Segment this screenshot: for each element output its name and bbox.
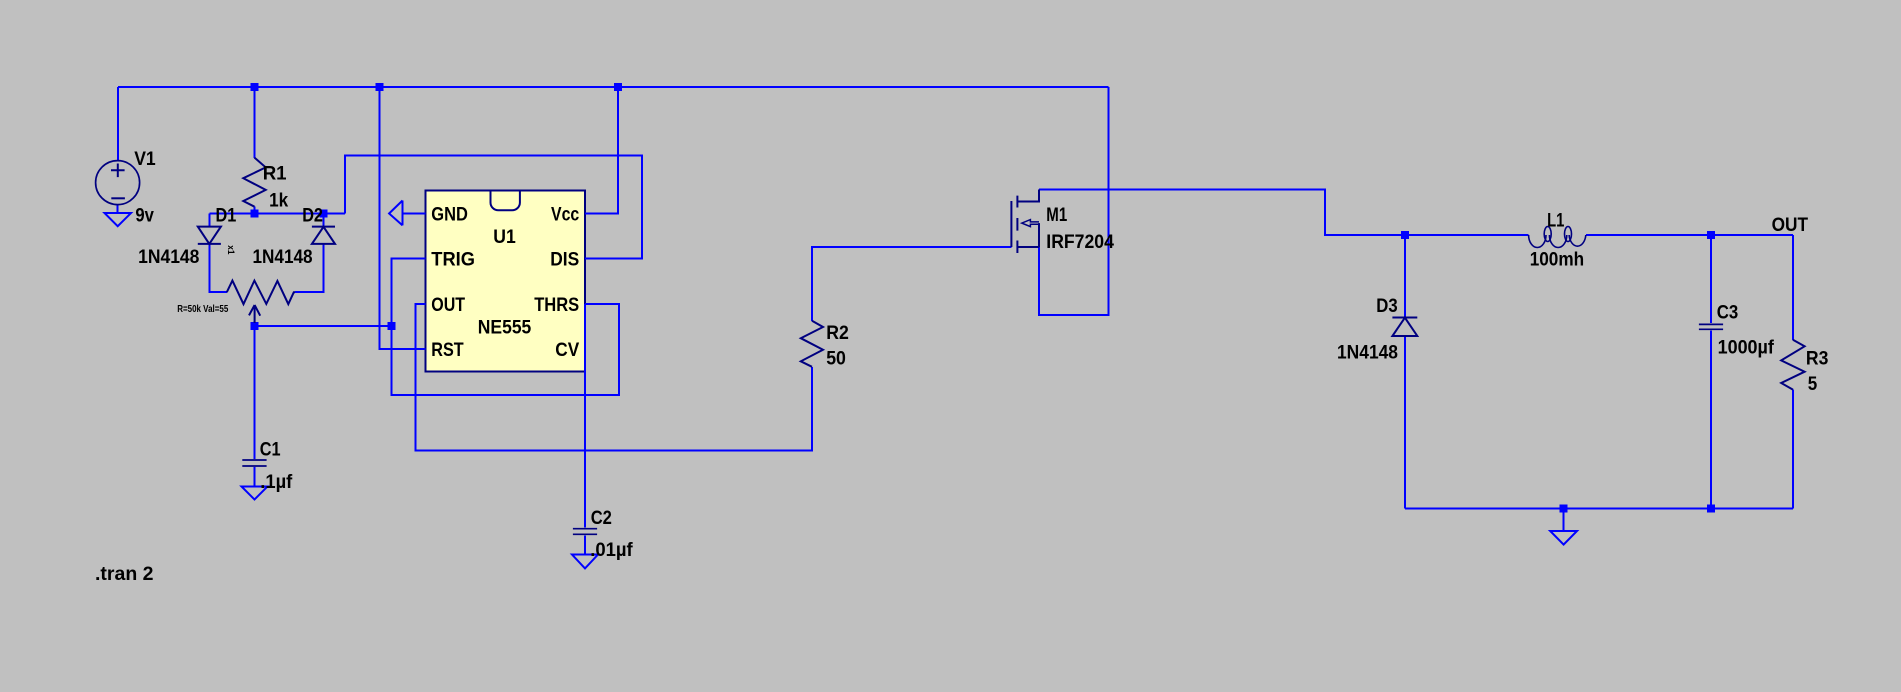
svg-text:1N4148: 1N4148 (253, 246, 313, 268)
svg-text:100mh: 100mh (1530, 248, 1584, 270)
wire wiper shaft (254, 321, 256, 326)
wire R1 bottom stub (254, 207, 256, 214)
svg-text:Vcc: Vcc (551, 204, 579, 226)
svg-text:.tran 2: .tran 2 (95, 563, 154, 585)
svg-text:.1µf: .1µf (260, 471, 293, 493)
junction RST rail (376, 83, 384, 91)
junction D2 top (320, 210, 328, 218)
wire ground stub bottom rail (1563, 509, 1565, 531)
wire L1 left (1405, 234, 1529, 236)
mosfet M1 top stub and riser (1017, 190, 1039, 202)
svg-text:OUT: OUT (431, 294, 465, 316)
resistor R1 zigzag (243, 158, 265, 207)
wire top rail (118, 86, 1109, 88)
wire wiper row (255, 325, 392, 327)
wire R1 top (254, 87, 256, 158)
inductor L1 loop 1 (1544, 227, 1551, 242)
svg-text:D2: D2 (302, 204, 323, 226)
wire D3 top (1404, 235, 1406, 318)
svg-text:C3: C3 (1717, 302, 1739, 324)
wire R2 top to M1 gate (812, 247, 1011, 321)
wire C2 bottom (584, 536, 586, 555)
svg-text:1N4148: 1N4148 (138, 246, 199, 268)
wire C1 bottom (254, 467, 256, 487)
IC notch (491, 191, 520, 211)
ground C2 (572, 555, 598, 569)
mosfet M1 gate bar (1010, 201, 1012, 247)
inductor L1 loop 2 (1565, 227, 1572, 242)
junction R1 top rail (251, 83, 259, 91)
svg-text:C2: C2 (591, 507, 612, 529)
wire D3 bottom (1404, 336, 1406, 509)
potentiometer wiper arrow (249, 305, 260, 323)
voltage source V1 circle (96, 161, 140, 205)
wire D1 D2 row (209, 213, 345, 215)
potentiometer X1 zigzag (227, 281, 295, 305)
wire M1 source to rail (1039, 87, 1109, 315)
svg-text:M1: M1 (1046, 204, 1067, 226)
wire C3 bottom (1710, 331, 1712, 509)
wire R3 bottom (1792, 390, 1794, 509)
wire D1 anode stub (208, 214, 210, 227)
wire bottom rail (1405, 508, 1793, 510)
junction ground bottom rail (1560, 505, 1568, 513)
svg-text:1N4148: 1N4148 (1337, 341, 1398, 363)
mosfet M1 bottom stub (1017, 246, 1039, 248)
junction R1 bottom D1 row (251, 210, 259, 218)
ground flag GND pin rotated (389, 201, 402, 226)
svg-text:DIS: DIS (550, 249, 579, 271)
svg-text:R3: R3 (1806, 348, 1829, 370)
wire OUT loop to R2 (416, 304, 813, 451)
svg-text:9v: 9v (135, 205, 154, 227)
wire V1 bottom stub (117, 205, 119, 213)
resistor R2 zigzag (801, 321, 823, 367)
junction TRIG wiper (388, 322, 396, 330)
svg-text:R=50k Val=55: R=50k Val=55 (177, 304, 228, 315)
resistor R3 zigzag (1781, 340, 1804, 390)
svg-text:OUT: OUT (1772, 214, 1809, 236)
diode D2 triangle (312, 227, 335, 244)
wire D2 top stub (323, 214, 325, 227)
svg-text:U1: U1 (493, 226, 516, 248)
wire DIS loop (345, 156, 642, 259)
diode D2 cathode bar (312, 226, 335, 228)
wire C3 top (1710, 235, 1712, 323)
mosfet M1 channel segments (1016, 196, 1018, 253)
capacitor C1 plates (242, 460, 266, 466)
svg-text:RST: RST (431, 339, 464, 361)
ground V1 (105, 213, 132, 226)
svg-text:TRIG: TRIG (431, 249, 475, 271)
capacitor C3 plates (1699, 324, 1723, 329)
svg-text:.01µf: .01µf (590, 539, 633, 561)
wire R3 top (1792, 235, 1794, 340)
svg-text:50: 50 (826, 348, 846, 370)
svg-text:x1: x1 (226, 245, 236, 254)
svg-text:D1: D1 (216, 204, 237, 226)
svg-text:V1: V1 (134, 148, 156, 170)
V1 minus (111, 197, 125, 199)
capacitor C2 plates (573, 529, 597, 535)
wire pot right to D2 (295, 244, 324, 292)
svg-text:1000µf: 1000µf (1718, 336, 1775, 358)
V1 plus (111, 164, 125, 178)
wire GND pin (403, 213, 426, 215)
junction D3 L1 (1401, 231, 1409, 239)
svg-text:R2: R2 (826, 322, 849, 344)
wire D1 cathode to pot (209, 244, 227, 292)
svg-text:GND: GND (431, 204, 468, 226)
wire L1 right to OUT corner (1586, 234, 1793, 236)
svg-text:THRS: THRS (534, 294, 579, 316)
diode D3 cathode bar (1392, 317, 1417, 319)
junction Vcc rail (614, 83, 622, 91)
svg-text:CV: CV (555, 339, 579, 361)
IC U1 NE555 body (426, 191, 586, 372)
mosfet M1 bulk riser (1038, 223, 1040, 247)
wire C2 top (584, 304, 586, 528)
svg-text:IRF7204: IRF7204 (1046, 231, 1114, 253)
svg-text:NE555: NE555 (478, 316, 532, 338)
svg-text:1k: 1k (269, 189, 288, 211)
ground C1 (242, 487, 268, 500)
junction C3 top (1707, 231, 1715, 239)
diode D1 cathode bar (198, 243, 221, 245)
wire C1 top (254, 326, 256, 459)
wire TRIG THRS loop (392, 259, 620, 396)
wire RST to rail (380, 87, 426, 349)
svg-text:D3: D3 (1376, 295, 1398, 317)
junction C3 bottom (1707, 505, 1715, 513)
svg-text:R1: R1 (263, 162, 287, 184)
mosfet M1 arrow (1022, 220, 1039, 227)
wire Vcc (585, 87, 618, 214)
inductor L1 coil (1529, 235, 1586, 248)
junction wiper (251, 322, 259, 330)
wire M1 drain to L1 node (1039, 190, 1405, 236)
diode D1 triangle (198, 227, 221, 244)
wire V1 top lead (117, 87, 119, 161)
diode D3 triangle (1392, 318, 1417, 336)
svg-text:5: 5 (1808, 373, 1818, 395)
svg-text:C1: C1 (260, 439, 281, 461)
ground bottom rail (1550, 531, 1577, 545)
svg-text:L1: L1 (1547, 210, 1564, 232)
